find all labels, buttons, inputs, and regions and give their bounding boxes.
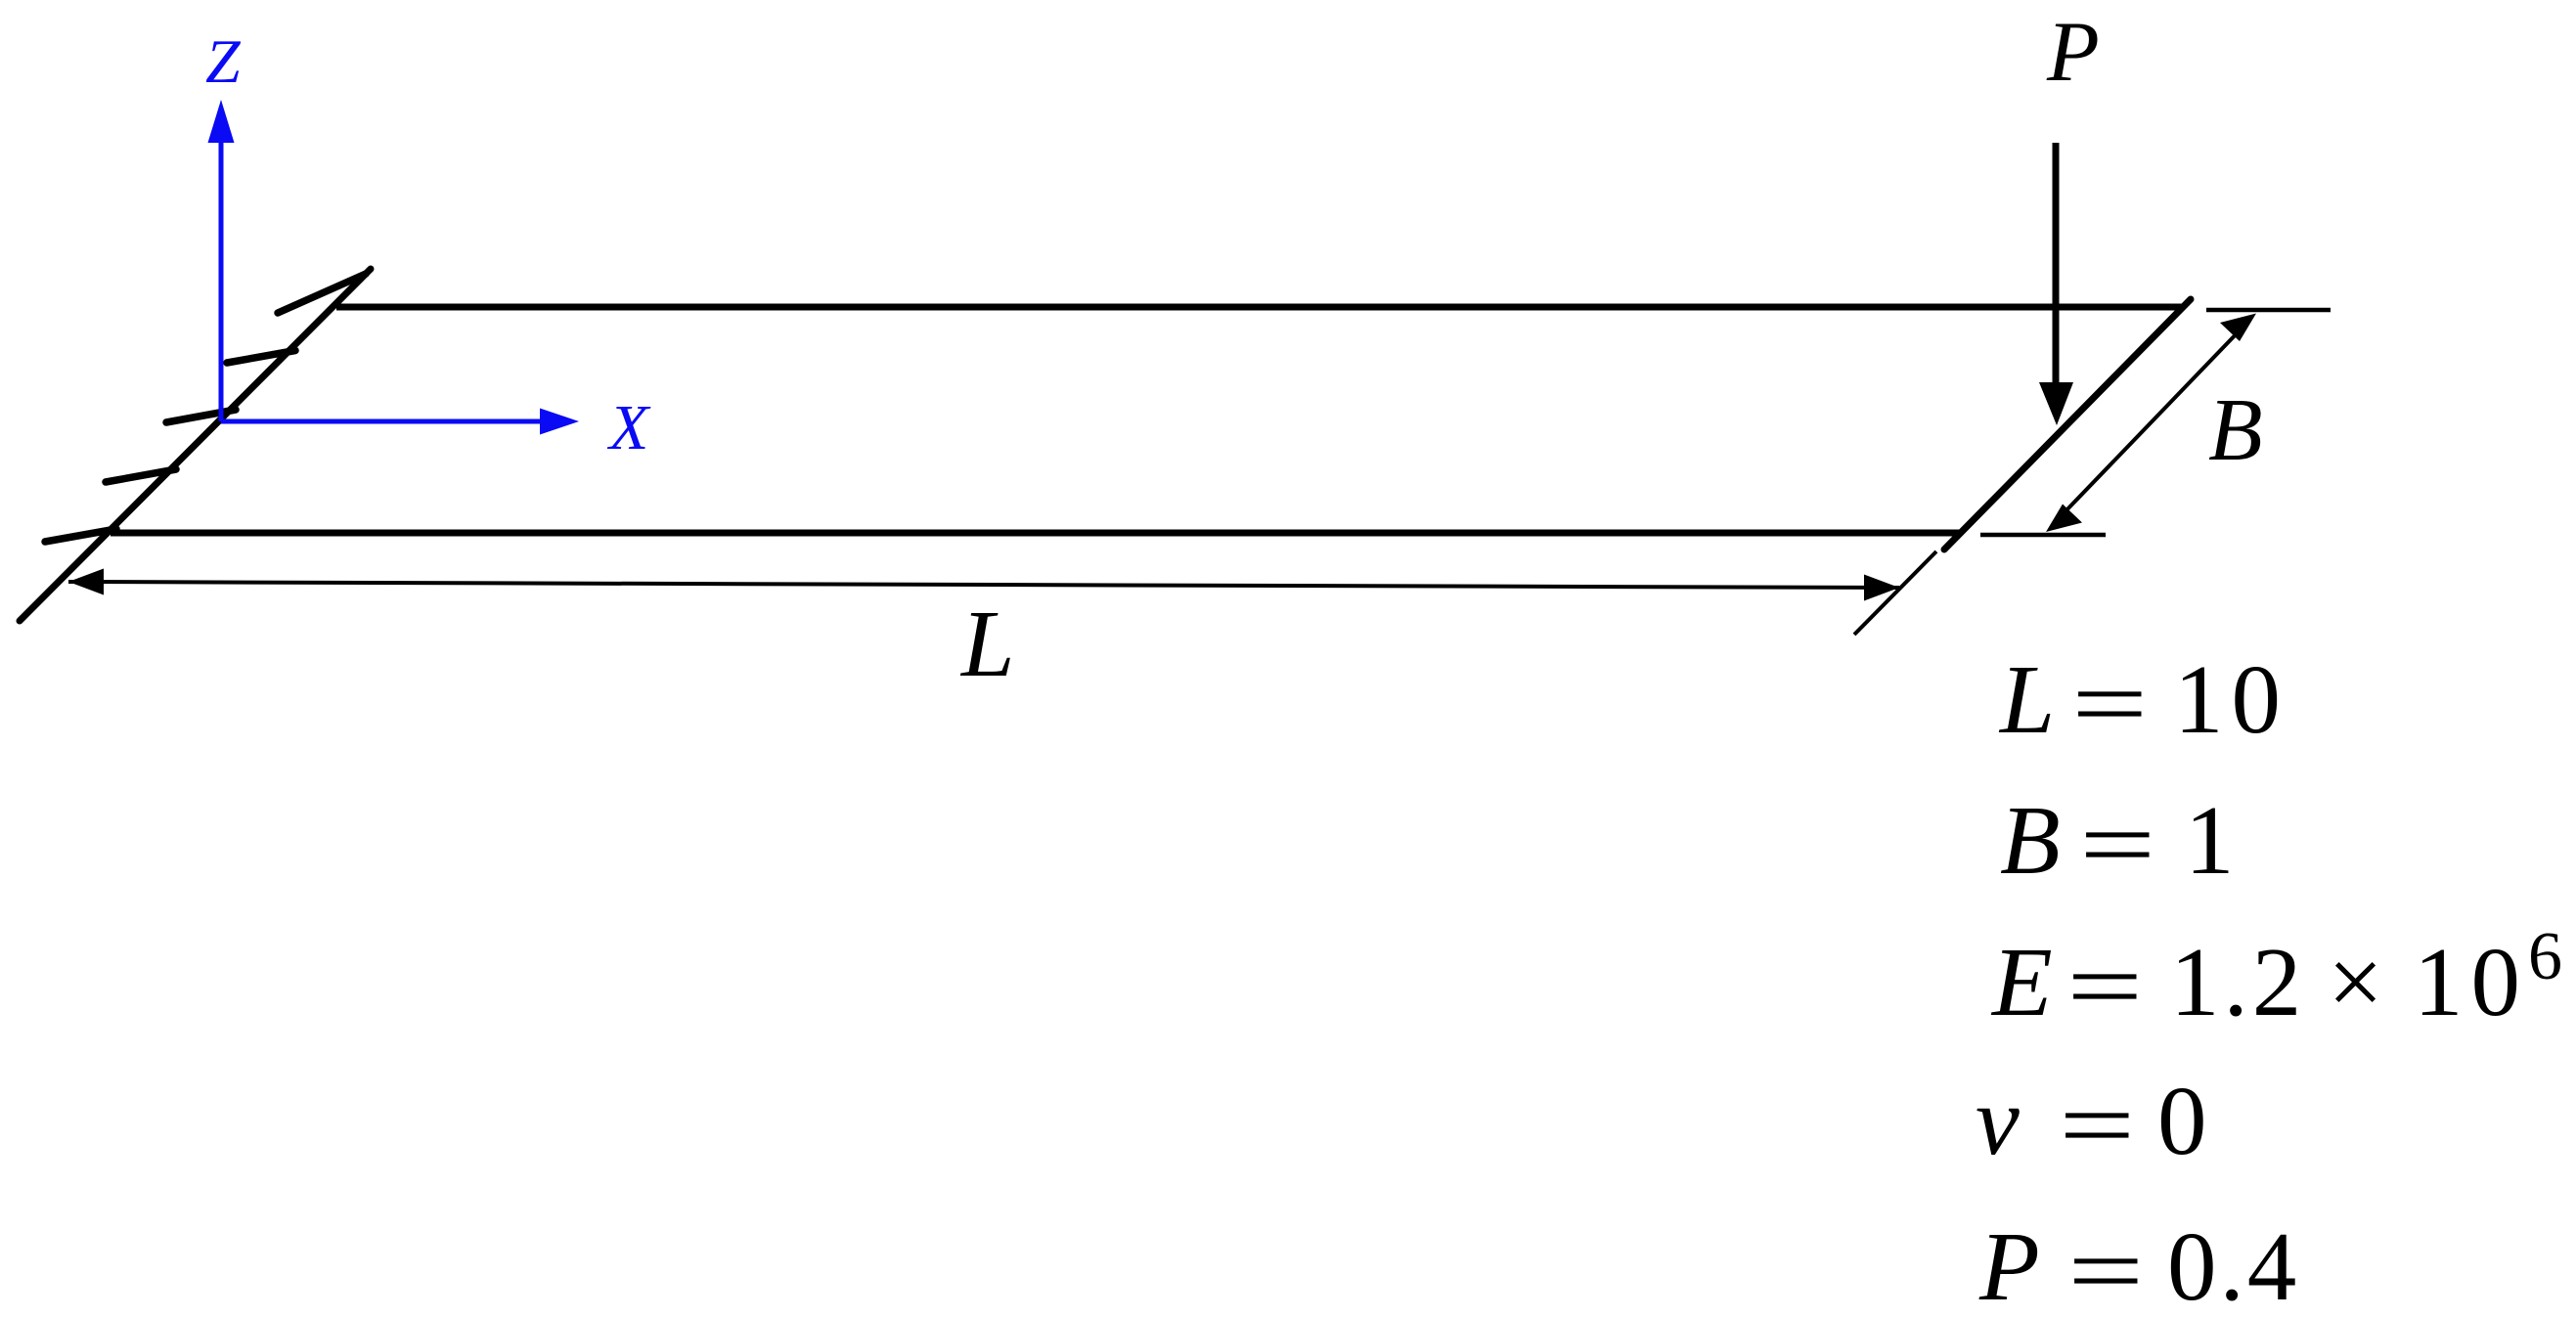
L right arrowhead [1864, 575, 1899, 601]
support hatch 5 [45, 529, 116, 542]
Z axis [219, 143, 224, 421]
svg-text:=: = [2066, 932, 2143, 1041]
svg-text:=: = [2079, 790, 2155, 900]
support hatch 3 [166, 410, 236, 422]
svg-text:6: 6 [2528, 919, 2562, 994]
svg-text:ν: ν [1976, 1066, 2020, 1175]
svg-text:Z: Z [205, 26, 242, 96]
B extension line top [2206, 308, 2331, 313]
text line nu = 0 [1976, 1066, 2207, 1180]
svg-text:×: × [2328, 927, 2383, 1036]
plate right slant edge [1944, 299, 2191, 549]
support hatch 2 [227, 351, 295, 364]
svg-text:1.2: 1.2 [2170, 927, 2305, 1036]
B lower arrowhead [2046, 505, 2082, 533]
plate bottom edge [111, 530, 1960, 537]
svg-text:10: 10 [2174, 644, 2288, 754]
svg-text:B: B [2208, 380, 2263, 479]
X axis [221, 419, 540, 424]
L left arrowhead [68, 569, 104, 595]
L tick slash [1854, 551, 1936, 635]
fixed support line [20, 269, 371, 621]
svg-text:0.4: 0.4 [2167, 1211, 2299, 1318]
svg-text:0: 0 [2157, 1066, 2207, 1175]
svg-text:P: P [2046, 5, 2100, 100]
svg-text:L: L [959, 592, 1015, 697]
text line B = 1 [2000, 785, 2235, 900]
svg-text:1: 1 [2185, 785, 2235, 895]
svg-text:X: X [606, 392, 651, 463]
svg-text:P: P [1978, 1211, 2040, 1318]
plate top edge [336, 304, 2184, 311]
B upper arrowhead [2220, 314, 2256, 342]
svg-text:L: L [1998, 644, 2055, 754]
svg-text:=: = [2067, 1216, 2144, 1318]
text line E = 1.2 x 10^6 [1990, 919, 2562, 1041]
text line L = 10 [1998, 644, 2288, 759]
svg-text:=: = [2071, 649, 2148, 759]
load P arrow [2053, 143, 2060, 383]
text line P = 0.4 [1978, 1211, 2299, 1318]
svg-text:E: E [1990, 927, 2053, 1036]
B dimension line [2064, 330, 2240, 513]
svg-text:=: = [2059, 1071, 2135, 1180]
svg-text:B: B [2000, 785, 2061, 895]
svg-text:10: 10 [2414, 927, 2528, 1036]
B extension line bottom [1980, 533, 2106, 538]
support hatch 4 [106, 469, 176, 482]
L dimension line [68, 582, 1899, 588]
support hatch 1 [278, 274, 366, 313]
